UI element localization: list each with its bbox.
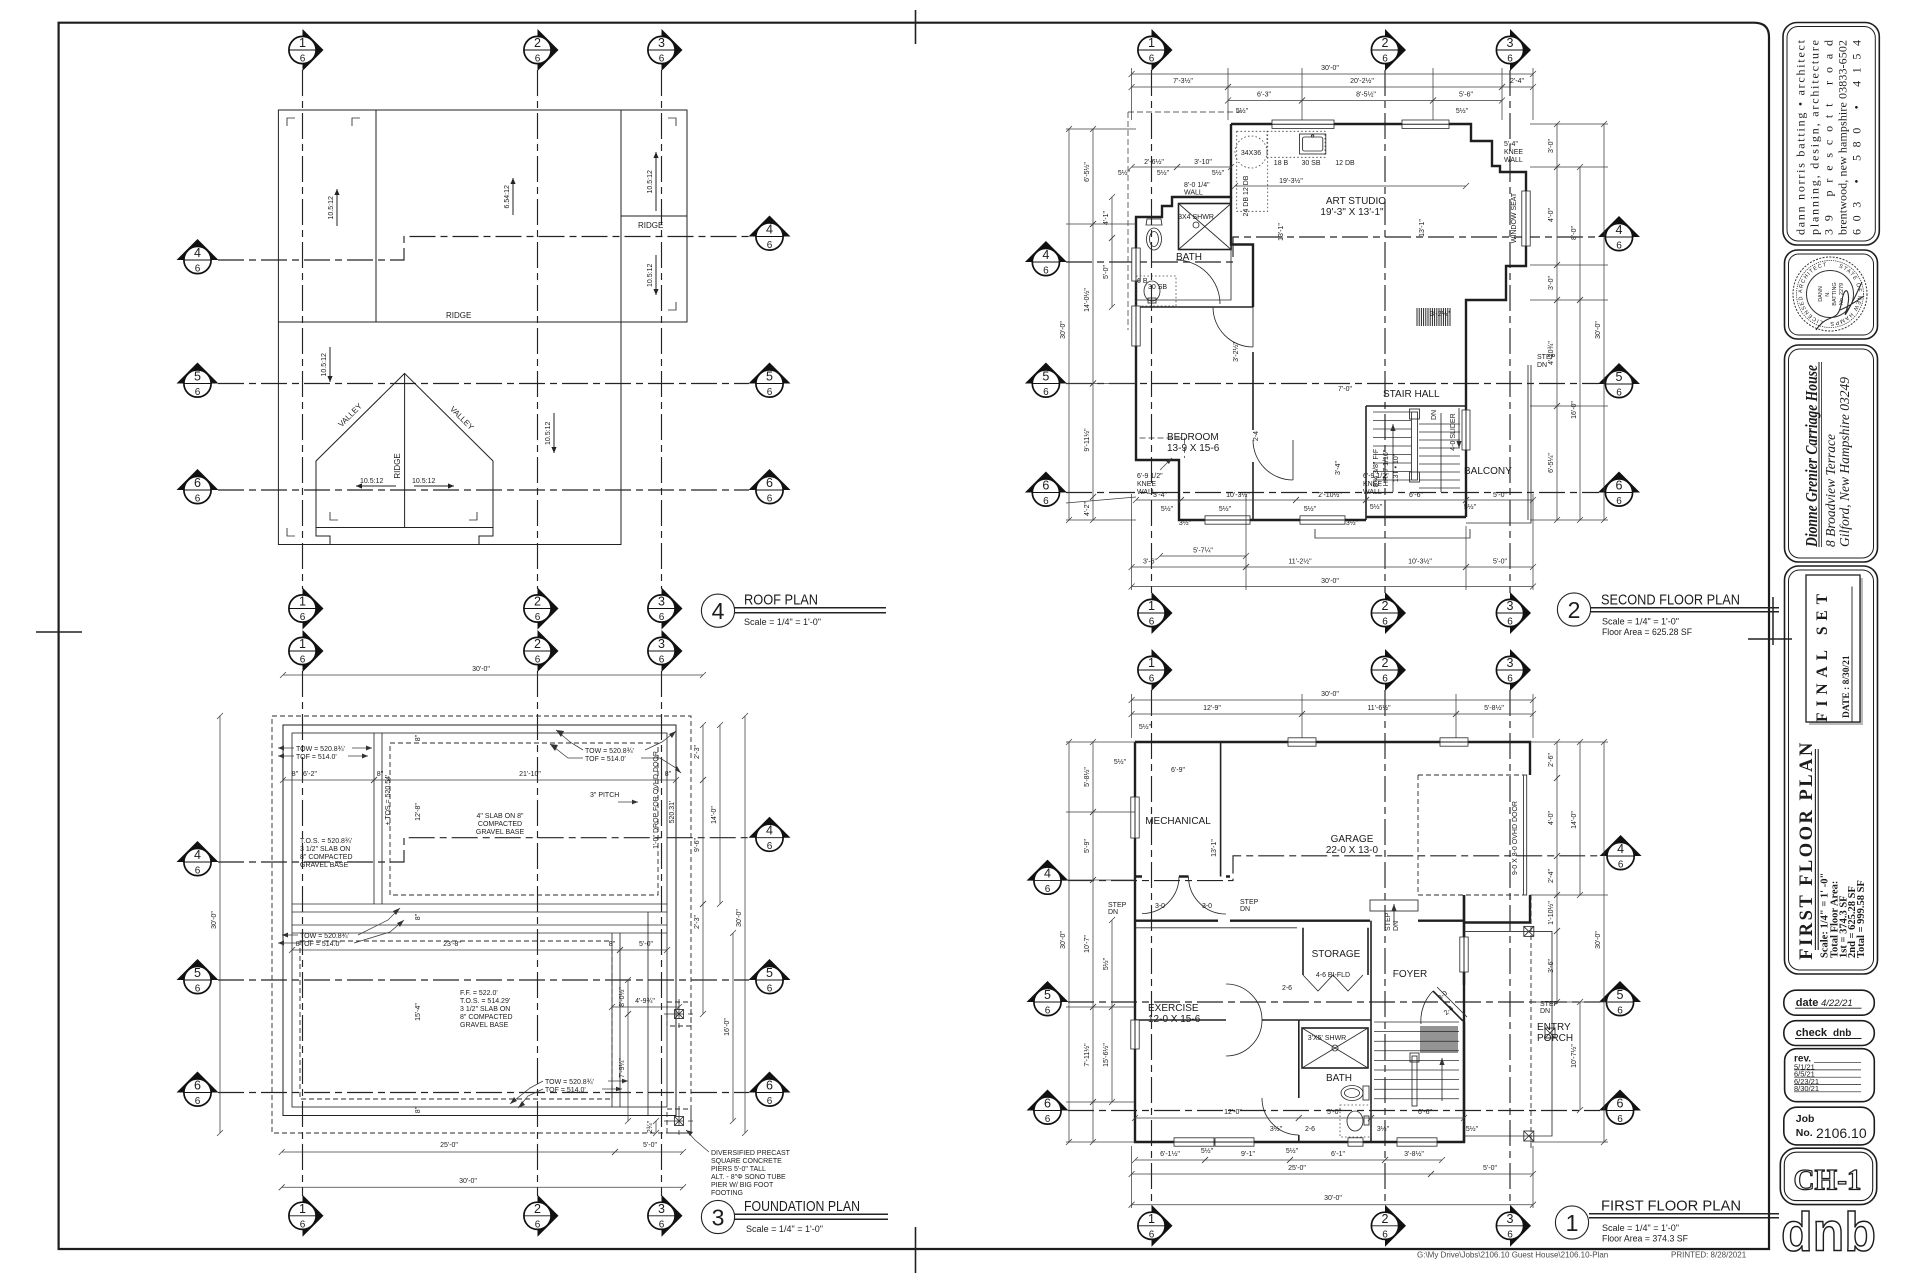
svg-text:GRAVEL BASE: GRAVEL BASE: [476, 829, 525, 836]
svg-text:3½": 3½": [1270, 1125, 1283, 1133]
windows first floor top wall: [1288, 738, 1316, 746]
grid line 6 first floor: [1068, 1110, 1600, 1112]
svg-text:5½": 5½": [1236, 107, 1249, 115]
bifold door: [1303, 975, 1363, 991]
svg-text:TOF = 514.0': TOF = 514.0': [296, 754, 337, 761]
svg-text:30'-0": 30'-0": [1595, 321, 1602, 339]
svg-text:5'-0": 5'-0": [1493, 559, 1507, 566]
svg-text:6'-6": 6'-6": [1418, 1109, 1432, 1116]
svg-text:STAIR HALL: STAIR HALL: [1383, 389, 1440, 400]
svg-text:13T • 10": 13T • 10": [1393, 453, 1400, 482]
svg-text:3: 3: [1507, 599, 1514, 613]
svg-text:4-6 BI-FLD: 4-6 BI-FLD: [1316, 972, 1350, 979]
foundation lower east wall: [611, 933, 613, 1107]
svg-text:6: 6: [1043, 387, 1049, 398]
svg-text:30'-0": 30'-0": [1060, 931, 1067, 949]
svg-text:No.: No.: [1796, 1127, 1813, 1139]
second floor bottom dims: [1136, 499, 1181, 501]
grid bubble 1 first floor bottom: [1138, 1205, 1173, 1247]
svg-text:5'-0": 5'-0": [643, 1142, 657, 1149]
grid bubble 3 foundation top: [648, 630, 683, 672]
grid bubble 1 first floor top: [1138, 649, 1173, 691]
svg-text:PRINTED: 8/28/2021: PRINTED: 8/28/2021: [1671, 1251, 1747, 1260]
svg-text:4'-0": 4'-0": [1548, 811, 1555, 825]
studio sink: [1300, 134, 1326, 154]
svg-text:6: 6: [535, 655, 541, 666]
grid bubble 1 foundation top: [289, 630, 324, 672]
windows first floor west wall: [1131, 797, 1139, 838]
svg-text:8'-0": 8'-0": [1571, 226, 1578, 240]
svg-text:DIVERSIFIED PRECAST: DIVERSIFIED PRECAST: [711, 1150, 791, 1157]
svg-text:MECHANICAL: MECHANICAL: [1145, 816, 1211, 827]
svg-text:3 1/2" SLAB ON: 3 1/2" SLAB ON: [460, 1006, 510, 1013]
porch post: [1545, 1028, 1555, 1038]
svg-text:9'-11½": 9'-11½": [1083, 428, 1091, 452]
svg-text:5: 5: [1042, 370, 1049, 384]
grid bubble 4 roof right: [749, 216, 791, 251]
grid line 3 second floor vertical: [1509, 70, 1511, 593]
svg-text:4: 4: [1617, 842, 1624, 856]
signature scribble: [1816, 282, 1864, 330]
svg-text:2'-10½": 2'-10½": [1318, 491, 1342, 499]
svg-text:5'-8½": 5'-8½": [1083, 767, 1091, 787]
foundation footing dashed outer: [272, 716, 691, 1133]
svg-text:T.O.S. = 520.8¾': T.O.S. = 520.8¾': [300, 838, 352, 845]
svg-text:30'-0": 30'-0": [472, 666, 490, 673]
svg-text:8": 8": [292, 771, 299, 778]
svg-text:10.5:12: 10.5:12: [647, 264, 654, 287]
svg-text:5'-6": 5'-6": [1459, 92, 1473, 99]
grid line 1 first floor vertical: [1151, 690, 1153, 1206]
foundation slab dashed lower: [300, 941, 612, 1099]
svg-text:5'-0": 5'-0": [1103, 265, 1110, 279]
svg-text:6: 6: [1382, 54, 1388, 65]
svg-text:3: 3: [658, 1202, 665, 1216]
svg-text:14'-0": 14'-0": [711, 806, 718, 824]
slope arrow gable right: [414, 485, 454, 487]
grid bubble 2 roof top: [524, 29, 559, 71]
entry door diagonal: [1433, 991, 1463, 1021]
svg-text:GRAVEL BASE: GRAVEL BASE: [300, 862, 349, 869]
grid line 2 first floor vertical: [1384, 690, 1386, 1206]
svg-text:6: 6: [1616, 479, 1623, 493]
svg-text:9-0 X 8-0 OVHD DOOR: 9-0 X 8-0 OVHD DOOR: [1512, 801, 1519, 875]
svg-text:5: 5: [194, 370, 201, 384]
svg-text:6: 6: [535, 1219, 541, 1230]
svg-text:24 DB 12 DB: 24 DB 12 DB: [1243, 175, 1250, 216]
svg-text:3" PITCH: 3" PITCH: [590, 792, 619, 799]
grid bubble 1 second floor top: [1138, 29, 1173, 71]
svg-text:6'-1½": 6'-1½": [1160, 1150, 1180, 1158]
svg-text:5½": 5½": [1102, 957, 1110, 970]
svg-text:TOF = 514.0': TOF = 514.0': [300, 941, 341, 948]
svg-text:5'-0": 5'-0": [1327, 1109, 1341, 1116]
svg-text:8'-0½": 8'-0½": [618, 987, 626, 1007]
svg-text:6: 6: [194, 1079, 201, 1093]
svg-text:BATH: BATH: [1326, 1073, 1352, 1084]
svg-text:2: 2: [1382, 1212, 1389, 1226]
svg-text:8": 8": [415, 913, 422, 920]
svg-text:TOF = 514.0': TOF = 514.0': [545, 1087, 586, 1094]
svg-text:WALL: WALL: [1504, 157, 1523, 164]
garage south wall: [1135, 875, 1230, 877]
svg-text:6'-5½": 6'-5½": [1083, 162, 1091, 182]
foundation garage strip line: [647, 912, 649, 1115]
svg-text:DN: DN: [1537, 362, 1547, 369]
grid bubble 5 first floor right: [1599, 981, 1641, 1016]
second floor knee wall overhang outline: [1128, 112, 1242, 458]
svg-text:5½": 5½": [1219, 505, 1232, 513]
svg-text:SECOND FLOOR PLAN: SECOND FLOOR PLAN: [1601, 592, 1740, 609]
svg-text:RIDGE: RIDGE: [393, 453, 402, 478]
grid line 5 second floor: [1066, 383, 1599, 385]
second floor envelope walls: [1136, 124, 1526, 520]
svg-text:FIRST FLOOR PLAN: FIRST FLOOR PLAN: [1601, 1198, 1741, 1215]
foundation dim 25-0 bottom: [282, 1151, 615, 1153]
grid line 4 foundation (jogged): [218, 838, 749, 862]
svg-text:1: 1: [299, 637, 306, 651]
svg-text:5½": 5½": [1201, 1147, 1214, 1155]
grid bubble 4 first floor right: [1600, 835, 1642, 870]
svg-text:G:\My Drive\Jobs\2106.10 Guest: G:\My Drive\Jobs\2106.10 Guest House\210…: [1417, 1251, 1608, 1260]
svg-text:Dionne Grenier Carriage House: Dionne Grenier Carriage House: [1802, 365, 1821, 548]
grid bubble 2 first floor top: [1371, 649, 1406, 691]
svg-text:6: 6: [195, 1096, 201, 1107]
svg-text:WALL: WALL: [1184, 190, 1203, 197]
deck edge below stairwell: [1315, 529, 1470, 538]
grid bubble 4 foundation right: [749, 817, 791, 852]
grid bubble 4 foundation left: [177, 841, 219, 876]
svg-text:6'-3": 6'-3": [1257, 92, 1271, 99]
second floor interior wall bath south: [1136, 306, 1253, 308]
svg-text:20'-2½": 20'-2½": [1350, 77, 1374, 85]
svg-text:Scale = 1/4" = 1'-0": Scale = 1/4" = 1'-0": [744, 617, 821, 627]
svg-text:1: 1: [1148, 1212, 1155, 1226]
door arcs second floor: [1213, 307, 1253, 347]
svg-text:6: 6: [300, 54, 306, 65]
svg-text:4/22/21: 4/22/21: [1821, 998, 1853, 1009]
svg-text:19'-3½": 19'-3½": [1279, 177, 1303, 185]
svg-text:2-6: 2-6: [1282, 985, 1292, 992]
svg-text:6: 6: [1616, 241, 1622, 252]
svg-text:6: 6: [1043, 266, 1049, 277]
svg-text:3'-0": 3'-0": [1548, 139, 1555, 153]
svg-text:TOW = 520.8¾': TOW = 520.8¾': [545, 1079, 594, 1086]
svg-text:3: 3: [712, 1205, 725, 1231]
foundation plan title: [701, 1198, 888, 1234]
svg-text:STEP: STEP: [1240, 899, 1259, 906]
svg-text:5'-9": 5'-9": [1084, 839, 1091, 853]
svg-text:3½": 3½": [1346, 519, 1359, 527]
svg-text:Scale = 1/4" = 1'-0": Scale = 1/4" = 1'-0": [1602, 1223, 1679, 1233]
svg-text:3: 3: [1507, 36, 1514, 50]
stair rail first floor: [1412, 1056, 1417, 1106]
svg-text:FOUNDATION PLAN: FOUNDATION PLAN: [744, 1198, 860, 1215]
first floor bottom dims: [1135, 1159, 1205, 1161]
svg-text:11'-2½": 11'-2½": [1288, 558, 1312, 566]
svg-text:5: 5: [1044, 988, 1051, 1002]
svg-text:6: 6: [1149, 54, 1155, 65]
svg-text:3: 3: [658, 36, 665, 50]
final set stamp box: [1809, 578, 1863, 725]
svg-text:8" COMPACTED: 8" COMPACTED: [300, 854, 353, 861]
foundation wall outer: [283, 725, 676, 1116]
windows second floor top wall: [1272, 120, 1334, 129]
slope arrow 10.5:12: [655, 255, 657, 295]
grid bubble 3 roof top: [648, 29, 683, 71]
svg-text:7'-0": 7'-0": [1338, 386, 1352, 393]
svg-text:5'-4": 5'-4": [1504, 141, 1518, 148]
job box: [1784, 1107, 1875, 1145]
svg-text:3 1/2" SLAB ON: 3 1/2" SLAB ON: [300, 846, 350, 853]
svg-text:5½": 5½": [1157, 169, 1170, 177]
svg-text:30'-0": 30'-0": [1324, 1195, 1342, 1202]
svg-text:check: check: [1796, 1027, 1828, 1039]
svg-text:6: 6: [1618, 860, 1624, 871]
svg-text:5½": 5½": [1370, 503, 1383, 511]
svg-text:7'-9¼": 7'-9¼": [619, 1058, 626, 1078]
second floor studio half wall: [1136, 245, 1231, 301]
svg-text:6: 6: [195, 984, 201, 995]
toilet second floor: [1147, 228, 1162, 250]
first floor right dims: [1556, 742, 1558, 778]
svg-text:6: 6: [1045, 1114, 1051, 1125]
exercise storage divider: [1135, 1019, 1299, 1021]
svg-text:TOW = 520.8¾': TOW = 520.8¾': [585, 748, 634, 755]
grid bubble 3 second floor top: [1496, 29, 1531, 71]
svg-text:4'-10¾": 4'-10¾": [1548, 341, 1555, 365]
svg-text:3'-2½": 3'-2½": [1232, 342, 1240, 362]
svg-text:ROOF PLAN: ROOF PLAN: [744, 592, 818, 609]
svg-text:2: 2: [1382, 656, 1389, 670]
svg-text:5½": 5½": [1286, 1147, 1299, 1155]
first floor envelope: [1135, 742, 1530, 1142]
first floor plan title: [1555, 1198, 1779, 1244]
grid line 5 foundation: [218, 979, 749, 981]
svg-text:6: 6: [300, 612, 306, 623]
svg-text:RIDGE: RIDGE: [446, 311, 471, 320]
svg-text:1: 1: [1148, 656, 1155, 670]
svg-text:30'-0": 30'-0": [1321, 691, 1339, 698]
linen hatch: [1417, 308, 1450, 326]
svg-text:2-6: 2-6: [1305, 1126, 1315, 1133]
svg-text:2: 2: [534, 595, 541, 609]
svg-text:3'X5' SHWR: 3'X5' SHWR: [1308, 1035, 1346, 1042]
foundation left dim 30-0: [219, 716, 221, 1133]
grid bubble 3 first floor top: [1496, 649, 1531, 691]
svg-text:6: 6: [300, 1219, 306, 1230]
svg-text:DN: DN: [1540, 1008, 1550, 1015]
svg-text:6: 6: [1045, 884, 1051, 895]
pier P2: [664, 1106, 694, 1136]
svg-text:6: 6: [1043, 496, 1049, 507]
svg-text:4: 4: [766, 824, 773, 838]
grid bubble 5 roof left: [177, 363, 219, 398]
svg-text:2106.10: 2106.10: [1816, 1125, 1867, 1141]
slope arrow 10.5:12: [655, 152, 657, 211]
svg-text:25'-0": 25'-0": [440, 1142, 458, 1149]
svg-text:30'-0": 30'-0": [211, 911, 218, 929]
grid bubble 1 roof top: [289, 29, 324, 71]
svg-text:30'-0": 30'-0": [1595, 931, 1602, 949]
svg-text:Gilford, New Hampshire 03249: Gilford, New Hampshire 03249: [1837, 377, 1852, 547]
stair treads second floor right flight: [1419, 424, 1460, 488]
svg-text:5½": 5½": [1114, 758, 1127, 766]
svg-text:1: 1: [1566, 1210, 1579, 1236]
grid bubble 5 foundation left: [177, 959, 219, 994]
slope arrow 10.5:12: [329, 347, 331, 382]
svg-text:6: 6: [1149, 674, 1155, 685]
svg-text:5: 5: [194, 966, 201, 980]
foundation dim row 6-2 / 21-10: [283, 779, 374, 781]
svg-text:STEP: STEP: [1108, 902, 1127, 909]
svg-text:STORAGE: STORAGE: [1312, 949, 1361, 960]
svg-text:BATTING: BATTING: [1832, 282, 1838, 305]
svg-text:2: 2: [534, 637, 541, 651]
svg-text:6: 6: [1507, 674, 1513, 685]
svg-text:5½": 5½": [1118, 169, 1131, 177]
title block seal box: [1785, 250, 1878, 339]
mechanical east wall: [1220, 742, 1222, 877]
svg-text:4" SLAB ON 8": 4" SLAB ON 8": [477, 813, 525, 820]
svg-text:2: 2: [534, 36, 541, 50]
grid bubble 1 roof bottom: [289, 588, 324, 630]
svg-text:30'-0": 30'-0": [1321, 578, 1339, 585]
grid line 4 first floor (jogged): [1068, 856, 1600, 881]
toilet first floor: [1341, 1086, 1363, 1101]
svg-text:6: 6: [1382, 617, 1388, 628]
grid line 5 first floor: [1068, 1001, 1600, 1003]
grid bubble 6 foundation left: [177, 1072, 219, 1107]
svg-text:1: 1: [1148, 599, 1155, 613]
grid line 1 second floor vertical: [1151, 70, 1153, 593]
svg-text:3'-6": 3'-6": [1548, 959, 1555, 973]
svg-text:6: 6: [1044, 1097, 1051, 1111]
svg-text:6: 6: [659, 54, 665, 65]
svg-text:15'-4": 15'-4": [415, 1003, 422, 1021]
svg-text:brentwood, new hampshire 03833: brentwood, new hampshire 03833-6502: [1836, 40, 1850, 235]
svg-text:9'-6": 9'-6": [694, 838, 701, 852]
svg-text:GRAVEL BASE: GRAVEL BASE: [460, 1022, 509, 1029]
svg-text:10'-7": 10'-7": [1084, 935, 1091, 953]
svg-text:10.5:12: 10.5:12: [360, 478, 383, 485]
svg-text:6: 6: [767, 240, 773, 251]
svg-text:2: 2: [534, 1202, 541, 1216]
svg-text:13-9 X 15-6: 13-9 X 15-6: [1167, 443, 1220, 454]
svg-text:RIDGE: RIDGE: [638, 221, 663, 230]
svg-text:8": 8": [415, 734, 422, 741]
svg-text:3½": 3½": [1179, 519, 1192, 527]
svg-text:16'-0": 16'-0": [1571, 401, 1578, 419]
svg-text:6: 6: [766, 476, 773, 490]
foundation right dims: [702, 725, 704, 780]
title block sheet title box: [1785, 566, 1878, 974]
svg-text:TOF = 514.0': TOF = 514.0': [585, 756, 626, 763]
foundation band lower section top: [292, 924, 667, 926]
svg-text:6.54:12: 6.54:12: [504, 185, 511, 208]
svg-text:15'-6½": 15'-6½": [1102, 1043, 1110, 1067]
svg-text:Floor Area = 625.28 SF: Floor Area = 625.28 SF: [1602, 627, 1692, 637]
svg-text:date: date: [1796, 997, 1819, 1009]
svg-text:5: 5: [1617, 988, 1624, 1002]
fold mark left middle: [36, 631, 82, 633]
svg-text:5½": 5½": [1304, 505, 1317, 513]
grid line 3 foundation vertical: [661, 671, 663, 1196]
fold mark right cross: [1748, 638, 1792, 640]
grid bubble 4 roof left: [177, 239, 219, 274]
svg-text:4'-0": 4'-0": [1548, 208, 1555, 222]
vanity second floor: [1136, 276, 1176, 306]
porch post: [1524, 926, 1534, 936]
svg-text:EXERCISE: EXERCISE: [1148, 1003, 1199, 1014]
grid bubble 3 foundation bottom: [648, 1195, 683, 1237]
svg-text:planning, design, architecture: planning, design, architecture: [1807, 40, 1821, 235]
svg-text:3X4 SHWR: 3X4 SHWR: [1178, 214, 1214, 221]
svg-text:6: 6: [767, 984, 773, 995]
svg-text:6 B: 6 B: [1137, 278, 1148, 285]
svg-text:10.5:12: 10.5:12: [647, 170, 654, 193]
foundation mechanical pit walls: [373, 733, 375, 904]
svg-text:14'-0": 14'-0": [1571, 811, 1578, 829]
svg-text:DANN: DANN: [1818, 286, 1824, 302]
grid bubble 2 first floor bottom: [1371, 1205, 1406, 1247]
svg-text:6'-9 1/2": 6'-9 1/2": [1137, 473, 1163, 480]
svg-text:3'-4": 3'-4": [1335, 461, 1342, 475]
svg-text:8" COMPACTED: 8" COMPACTED: [460, 1014, 513, 1021]
svg-text:7'-3½": 7'-3½": [1173, 77, 1193, 85]
foyer east wall: [1463, 895, 1465, 1142]
svg-text:6: 6: [195, 866, 201, 877]
svg-text:19'-3" X 13'-1": 19'-3" X 13'-1": [1320, 207, 1384, 218]
svg-text:6: 6: [1149, 617, 1155, 628]
porch outline: [1464, 931, 1552, 1136]
slider door east: [1462, 410, 1470, 450]
svg-text:6: 6: [659, 1219, 665, 1230]
svg-text:3'-2½": 3'-2½": [1430, 310, 1450, 318]
foundation dim 23-8: [292, 949, 620, 951]
balcony rails: [1466, 365, 1531, 523]
svg-text:FINAL SET: FINAL SET: [1814, 593, 1831, 722]
svg-text:4'-9¾": 4'-9¾": [635, 998, 655, 1005]
svg-text:10.5:12: 10.5:12: [321, 353, 328, 376]
shower 3x4: [1179, 204, 1232, 250]
grid bubble 3 roof bottom: [648, 588, 683, 630]
svg-text:6'-9": 6'-9": [1171, 767, 1185, 774]
svg-text:5½": 5½": [1456, 107, 1469, 115]
first floor left dims: [1068, 742, 1070, 1142]
svg-text:GARAGE: GARAGE: [1331, 834, 1374, 845]
svg-text:2'-4": 2'-4": [1510, 78, 1524, 85]
svg-text:6: 6: [535, 612, 541, 623]
svg-text:1: 1: [299, 595, 306, 609]
grid bubble 2 second floor top: [1371, 29, 1406, 71]
pier P1: [664, 999, 694, 1029]
svg-text:DATE : 8/30/21: DATE : 8/30/21: [1842, 655, 1852, 718]
svg-text:KNEE: KNEE: [1504, 149, 1523, 156]
svg-text:COMPACTED: COMPACTED: [478, 821, 522, 828]
svg-text:8": 8": [609, 941, 616, 948]
svg-text:3-0: 3-0: [1155, 903, 1165, 910]
grid bubble 6 second floor left: [1025, 472, 1067, 507]
second floor top dims: [1132, 73, 1533, 75]
grid line 2 roof vertical: [537, 70, 539, 589]
svg-text:6: 6: [1507, 1229, 1513, 1240]
svg-text:4: 4: [1616, 223, 1623, 237]
foundation wall inner: [292, 733, 667, 1107]
svg-text:2'-4": 2'-4": [1548, 869, 1555, 883]
svg-text:6: 6: [195, 264, 201, 275]
svg-text:6: 6: [1617, 1114, 1623, 1125]
